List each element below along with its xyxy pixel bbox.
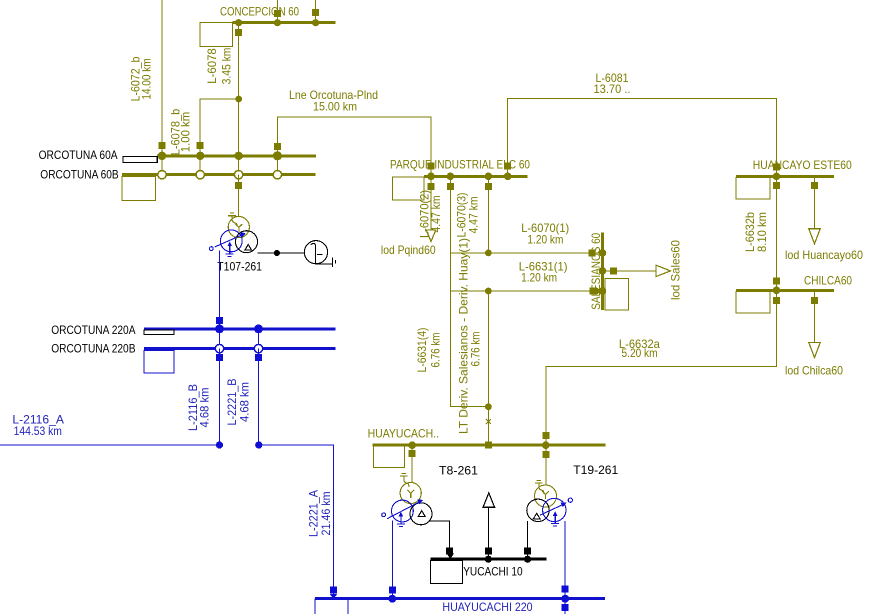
open switch circles on ORCOTUNA 60B bbox=[158, 171, 282, 179]
T107 delta glyph bbox=[245, 245, 252, 251]
wire T107 delta to coil bbox=[258, 252, 305, 254]
bus ORCOTUNA 60B bbox=[40, 167, 315, 181]
wire riser 2 above CONCEPCION 60 bbox=[312, 0, 319, 23]
substation box PARQUE bbox=[393, 177, 424, 200]
breaker squares below ORCOTUNA 220B bbox=[216, 354, 262, 361]
bus HUAYUCACHI 220 bbox=[315, 599, 605, 614]
T107 LV winding circle (220kV) bbox=[220, 230, 242, 252]
substation box CONCEPCION 60 bbox=[200, 23, 233, 47]
node HUAYUCACHI 60 at T8 bbox=[408, 441, 416, 449]
T8 wye glyph bbox=[407, 490, 414, 498]
nodes on PARQUE bus bbox=[427, 173, 511, 181]
bus YUCACHI 10 bbox=[430, 559, 546, 578]
transformer T8-261 bbox=[382, 464, 479, 527]
svg-text:ORCOTUNA 220A: ORCOTUNA 220A bbox=[51, 323, 135, 337]
svg-text:HUAYUCACH..: HUAYUCACH.. bbox=[368, 426, 439, 440]
bus HUAYUCACHI 60 bbox=[368, 426, 606, 445]
junction node L-2116 bbox=[216, 441, 223, 448]
line L-6070(1) 1.20 km bbox=[450, 221, 602, 256]
coil ground bars bbox=[332, 258, 335, 268]
T19 neutral ground symbol bbox=[535, 480, 544, 494]
coupler wire ORCOTUNA 60 at 238.6 bbox=[238, 156, 240, 175]
load lod Pqind60 bbox=[381, 176, 436, 257]
line L-2116_A 144.53 km to left edge bbox=[0, 412, 220, 445]
arrow terminal L-2221_A at HUAYUCACHI 220 bbox=[330, 594, 337, 598]
coupler wire ORCOTUNA 60 at 162 bbox=[161, 156, 163, 175]
wire HUAYUCACHI 60 to T8 bbox=[411, 445, 413, 482]
bus ORCOTUNA 220A bbox=[51, 323, 335, 337]
svg-text:4.68 km: 4.68 km bbox=[198, 387, 212, 427]
substation box ORCOTUNA 220B bbox=[144, 350, 174, 373]
substation box SALESIANOS bbox=[605, 279, 629, 310]
svg-text:CONCEPCION 60: CONCEPCION 60 bbox=[220, 4, 299, 18]
T8 HV winding circle bbox=[400, 482, 421, 503]
substation box HUAYUCACHI 220 (open bottom) bbox=[315, 599, 348, 614]
node YUCACHI at T19 bbox=[524, 556, 531, 563]
coupler wire ORCOTUNA 220 at 219.5 bbox=[219, 329, 221, 349]
generator arrow at YUCACHI 10 bbox=[483, 493, 495, 559]
open switch circles on ORCOTUNA 220B bbox=[215, 344, 262, 352]
substation box CHILCA bbox=[736, 291, 770, 313]
wire T8 to HUAYUCACHI 220 bbox=[388, 521, 396, 603]
coil circle bbox=[304, 241, 327, 264]
svg-text:3.45 km: 3.45 km bbox=[219, 48, 233, 85]
bus CHILCA60 bbox=[736, 273, 852, 290]
T19 HV winding circle bbox=[535, 485, 557, 507]
line L-6072_b 14.00 km from top edge bbox=[128, 0, 165, 156]
svg-text:1.20 km: 1.20 km bbox=[527, 232, 563, 246]
junction node L-6078 / L-6078_b bbox=[235, 96, 242, 103]
bus SALESIANOS 60 (vertical) bbox=[589, 233, 603, 310]
breaker square below ORCOTUNA 60B to T107 bbox=[235, 182, 242, 189]
node CONCEPCION riser 2 bbox=[312, 19, 319, 26]
substation box YUCACHI 10 bbox=[430, 560, 462, 583]
svg-text:13.70 ..: 13.70 .. bbox=[594, 82, 631, 96]
T107 tap changer arrow bbox=[215, 234, 244, 247]
line LT Deriv. Salesianos - Deriv. Huay(1) bbox=[457, 238, 492, 449]
T8 tertiary winding circle bbox=[410, 503, 432, 525]
neutral petersen coil of T107 bbox=[258, 241, 336, 267]
junction node at L-6070(1) x LT Deriv bbox=[485, 250, 492, 257]
load lod Sales60 bbox=[603, 240, 683, 300]
line L-6081 13.70 km bbox=[504, 71, 780, 176]
T19 tap changer arrow bbox=[540, 504, 564, 515]
node CONCEPCION riser 1 bbox=[274, 19, 281, 26]
wire HUAYUCACHI 60 to T19 bbox=[545, 445, 547, 485]
line Lne Orcotuna-Plnd 15.00 km bbox=[274, 88, 435, 176]
node CONCEPCION at L-6078 bbox=[235, 19, 242, 26]
wire T8 delta to YUCACHI 10 bbox=[429, 521, 454, 559]
T19 delta glyph bbox=[533, 513, 540, 519]
closed switch nodes on ORCOTUNA 60A bbox=[158, 151, 282, 160]
T8 tap changer arrow bbox=[387, 501, 421, 519]
bus CONCEPCION 60 bbox=[220, 4, 335, 22]
bus ORCOTUNA 60A bbox=[39, 148, 316, 162]
svg-text:ORCOTUNA 60B: ORCOTUNA 60B bbox=[40, 167, 118, 181]
svg-text:15.00 km: 15.00 km bbox=[313, 100, 357, 114]
T8 delta glyph bbox=[418, 511, 425, 517]
line L-6631(4) 6.76 km loop bbox=[415, 291, 488, 407]
svg-text:T8-261: T8-261 bbox=[439, 464, 478, 478]
svg-text:HUAYUCACHI 220: HUAYUCACHI 220 bbox=[442, 600, 532, 614]
load lod Chilca60 bbox=[785, 290, 843, 377]
coupler wire ORCOTUNA 60 at 277.4 bbox=[276, 156, 278, 175]
marker bar at ORCOTUNA 60A bbox=[123, 157, 157, 163]
T8 LV winding circle bbox=[392, 500, 414, 522]
coil glyph bbox=[311, 243, 333, 263]
line L-6632a 5.20 km bbox=[542, 290, 780, 445]
svg-text:lod Sales60: lod Sales60 bbox=[669, 240, 683, 300]
node YUCACHI at generator bbox=[485, 556, 492, 563]
T107 neutral ground symbol bbox=[228, 213, 237, 226]
svg-text:lod Chilca60: lod Chilca60 bbox=[785, 363, 843, 377]
breaker square T8 below bus bbox=[409, 450, 416, 457]
T19 LV winding circle (right) bbox=[543, 498, 566, 521]
svg-text:lod Pqind60: lod Pqind60 bbox=[381, 243, 436, 257]
svg-text:1.20 km: 1.20 km bbox=[521, 270, 557, 284]
svg-text:T107-261: T107-261 bbox=[217, 259, 262, 273]
svg-text:4.47 km: 4.47 km bbox=[429, 195, 443, 232]
line L-6070(3) 4.47 km bbox=[455, 176, 492, 253]
substation box HUAYUCACHI 60 bbox=[374, 446, 405, 467]
marker bar at ORCOTUNA 220A bbox=[144, 330, 174, 335]
svg-text:4.68 km: 4.68 km bbox=[237, 382, 251, 422]
wire T19 to HUAYUCACHI 220 and below edge bbox=[561, 521, 569, 614]
svg-text:L-6078: L-6078 bbox=[205, 48, 219, 84]
T8 neutral ground symbol bbox=[400, 473, 409, 486]
line L-6078 3.45 km bbox=[205, 23, 242, 156]
node CHILCA at L-6632 bbox=[773, 287, 781, 295]
svg-text:T19-261: T19-261 bbox=[573, 463, 618, 477]
svg-text:ORCOTUNA 220B: ORCOTUNA 220B bbox=[51, 342, 135, 356]
T8 LV grounded-star glyph bbox=[397, 514, 405, 526]
svg-text:6.76 km: 6.76 km bbox=[469, 331, 483, 366]
coupler wire ORCOTUNA 60 at 200 bbox=[199, 156, 201, 175]
svg-text:lod Huancayo60: lod Huancayo60 bbox=[785, 248, 863, 262]
T107 LV grounded-star glyph bbox=[226, 244, 234, 256]
svg-text:8.10 km: 8.10 km bbox=[755, 212, 769, 252]
svg-text:YUCACHI 10: YUCACHI 10 bbox=[463, 564, 523, 578]
svg-text:ORCOTUNA 60A: ORCOTUNA 60A bbox=[39, 148, 118, 162]
load lod Huancayo60 bbox=[785, 176, 863, 262]
wire T107 to ORCOTUNA 220A bbox=[216, 250, 223, 329]
line L-6631(1) 1.20 km bbox=[450, 260, 602, 295]
wire L-6078_b 1.00 km bbox=[168, 99, 238, 156]
breaker square L-6078 at ORCOTUNA 60A bbox=[197, 142, 204, 149]
line L-2221_B 4.68 km bbox=[225, 349, 259, 445]
svg-text:14.00 km: 14.00 km bbox=[139, 58, 153, 99]
junction dot bbox=[274, 250, 280, 256]
connecting wire between L-6070(1) and L-6631(1) bbox=[449, 253, 451, 291]
bus ORCOTUNA 220B bbox=[51, 342, 335, 356]
T107 HV winding circle (60kV) bbox=[228, 217, 249, 238]
T19 wye glyph bbox=[542, 491, 549, 499]
svg-text:1.00 km: 1.00 km bbox=[179, 112, 193, 152]
bus HUANCAYO ESTE60 bbox=[736, 158, 852, 176]
svg-text:6.76 km: 6.76 km bbox=[428, 332, 442, 367]
node HUAYUCACHI 60 at T19 bbox=[542, 441, 550, 449]
substation box HUANCAYO bbox=[736, 177, 770, 199]
coupler wire ORCOTUNA 220 at 258.5 bbox=[258, 329, 260, 349]
junction node at L-6631(1) x LT Deriv bbox=[485, 288, 492, 295]
svg-text:21.46 km: 21.46 km bbox=[319, 491, 333, 535]
svg-text:144.53 km: 144.53 km bbox=[14, 424, 62, 438]
junction node L-2221 bbox=[255, 441, 262, 448]
transformer T107-261 bbox=[209, 213, 262, 273]
T19 LV grounded-star glyph bbox=[551, 514, 559, 526]
wire T19 delta to YUCACHI 10 bbox=[524, 521, 531, 559]
bus PARQUE INDUSTRIAL ELC 60 bbox=[390, 158, 530, 177]
T107 tertiary winding circle (delta) bbox=[236, 231, 258, 253]
closed switch nodes on ORCOTUNA 220A bbox=[215, 325, 263, 334]
T107 wye glyph bbox=[235, 224, 242, 232]
T19 tertiary winding circle (left) bbox=[527, 499, 549, 521]
wire riser 1 above CONCEPCION 60 bbox=[274, 0, 281, 23]
svg-text:L-6631(4): L-6631(4) bbox=[415, 327, 429, 372]
transformer T19-261 bbox=[527, 463, 619, 526]
line L-2221_A 21.46 km bbox=[259, 445, 337, 595]
nodes on SALESIANOS bus bbox=[599, 249, 607, 295]
line L-6070(2) 4.47 km bbox=[418, 176, 454, 253]
line L-6632b 8.10 km bbox=[743, 176, 780, 290]
svg-text:HUANCAYO ESTE60: HUANCAYO ESTE60 bbox=[753, 158, 852, 172]
wire ORCOTUNA 60B to T107 bbox=[238, 175, 240, 217]
breaker square T19 below bus bbox=[542, 451, 549, 458]
line L-2116_B 4.68 km bbox=[186, 349, 220, 445]
svg-text:5.20 km: 5.20 km bbox=[622, 346, 658, 360]
node HUANCAYO at L-6081 bbox=[773, 173, 781, 181]
substation box ORCOTUNA 60B bbox=[122, 176, 155, 200]
svg-text:4.47 km: 4.47 km bbox=[467, 196, 481, 233]
svg-text:CHILCA60: CHILCA60 bbox=[804, 273, 852, 287]
